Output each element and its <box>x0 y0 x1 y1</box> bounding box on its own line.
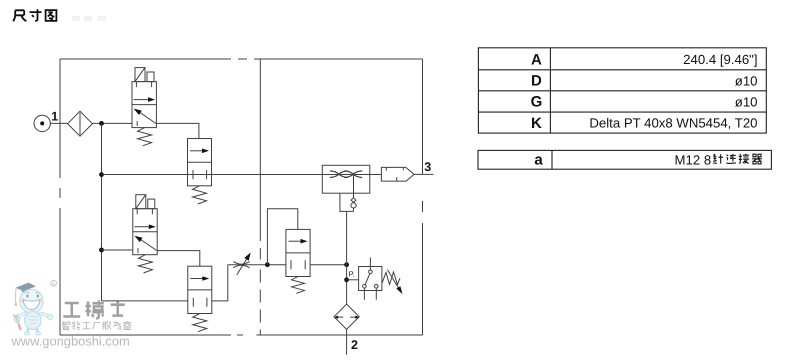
svg-text:A: A <box>531 51 542 68</box>
pilot check valve under flow control <box>340 174 356 211</box>
svg-text:www.gongboshi.com: www.gongboshi.com <box>11 334 130 349</box>
section divider (chain line) <box>259 59 261 335</box>
wire V5 to main node <box>310 264 347 266</box>
pressure switch S1 <box>359 258 403 300</box>
svg-text:K: K <box>531 115 542 132</box>
wire V4 out up to throttle line <box>212 265 228 301</box>
node J4 <box>265 262 270 267</box>
faint residue marks <box>72 16 106 21</box>
watermark url <box>11 334 130 349</box>
label port 3 <box>424 160 431 174</box>
connector table frame <box>478 150 771 169</box>
node J5 <box>344 262 349 267</box>
label port 2 <box>351 338 358 352</box>
wire supply bus vertical <box>101 123 103 301</box>
valve V4 (2/2 piston valve, lower) <box>188 266 212 332</box>
wire V1 out to V2 pilot <box>156 123 199 138</box>
valve V1 (3/2 solenoid pilot valve) <box>132 68 156 146</box>
wire V3 out to V4 pilot <box>157 251 200 267</box>
connector table value M12 8针连接器 <box>675 152 762 167</box>
svg-text:G: G <box>531 94 543 111</box>
table values <box>589 52 757 131</box>
mascot figure <box>13 283 53 335</box>
wire bus to V2 and onward to flow control <box>102 174 382 176</box>
node J3 <box>99 248 104 253</box>
wire bus to V3 <box>102 249 133 251</box>
node J6 (P branch) <box>344 277 349 282</box>
enclosure boundary right edge <box>422 59 424 335</box>
valve V5 (pilot operated 2/2 valve) <box>286 229 310 293</box>
wire port1 to filter <box>50 122 67 124</box>
watermark group <box>11 280 132 348</box>
vertical main line right section <box>346 211 348 304</box>
svg-text:ø10: ø10 <box>735 73 758 88</box>
node J2 <box>99 172 104 177</box>
flow control block (dual restrictor) <box>322 165 370 193</box>
wire node to pressure switch <box>347 279 359 281</box>
dimension table frame <box>478 48 766 133</box>
filter F2 (exhaust filter at port 2) <box>334 304 359 329</box>
wire port 2 <box>346 329 348 355</box>
port 3 plug symbol <box>381 167 414 181</box>
svg-text:a: a <box>534 151 543 168</box>
filter F1 (inlet filter diamond) <box>68 111 93 136</box>
svg-text:M12 8: M12 8 <box>675 152 712 167</box>
valve V3 (3/2 solenoid pilot valve, lower) <box>133 195 157 273</box>
wire port 3 stub <box>414 173 433 175</box>
label P. <box>349 270 355 279</box>
svg-text:2: 2 <box>351 338 358 352</box>
valve V2 (2/2 piston valve) <box>188 139 212 205</box>
pilot wire to V5 <box>267 209 297 265</box>
port 1 <box>34 110 58 132</box>
node J1 <box>99 121 104 126</box>
svg-text:Delta PT 40x8 WN5454, T20: Delta PT 40x8 WN5454, T20 <box>589 116 757 131</box>
svg-text:1: 1 <box>51 110 58 124</box>
svg-text:3: 3 <box>424 160 431 174</box>
watermark text 工博士 <box>63 300 124 318</box>
title 尺寸图 <box>13 9 56 21</box>
enclosure boundary left edge <box>59 59 61 335</box>
connector table label a <box>534 151 543 168</box>
svg-text:D: D <box>531 73 542 90</box>
svg-text:ø10: ø10 <box>735 94 758 109</box>
tables group <box>478 48 771 169</box>
throttle valve (adjustable restrictor) <box>228 253 286 275</box>
svg-text:240.4 [9.46"]: 240.4 [9.46"] <box>683 52 757 67</box>
wire bus corner to V4 <box>102 300 188 302</box>
schematic group <box>34 59 434 355</box>
enclosure boundary top edge <box>60 58 423 60</box>
enclosure boundary bottom edge <box>60 334 423 336</box>
wire filter to valve V1 <box>92 122 132 124</box>
table labels <box>531 51 543 132</box>
svg-text:P.: P. <box>349 270 355 279</box>
watermark text 智能工厂服务商 <box>62 321 131 329</box>
registered mark <box>51 280 57 286</box>
